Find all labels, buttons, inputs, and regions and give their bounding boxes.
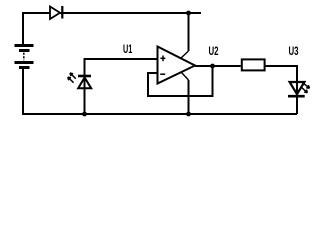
label U1: [123, 42, 132, 56]
label U2: [209, 44, 219, 58]
wire: [148, 66, 213, 96]
wire: [266, 66, 297, 114]
resistor U2: [242, 59, 265, 70]
LED U3: [288, 82, 310, 96]
wire: [182, 73, 189, 115]
node output junction: [210, 64, 215, 69]
wire: [23, 68, 297, 114]
op-amp U1: [158, 47, 196, 84]
battery B1: [15, 46, 34, 68]
node top junction: [186, 11, 191, 16]
photodiode D2: [68, 73, 91, 88]
label U3: [289, 44, 299, 58]
wire: [181, 13, 189, 58]
svg-text:U3: U3: [289, 44, 299, 58]
wire: [195, 65, 241, 67]
node opamp-rail junction: [186, 112, 191, 117]
wire: [23, 13, 201, 44]
wire: [85, 59, 157, 114]
diode D1: [50, 6, 62, 19]
svg-text:U2: U2: [209, 44, 219, 58]
svg-text:U1: U1: [123, 42, 132, 56]
node photodiode-rail junction: [82, 112, 87, 117]
